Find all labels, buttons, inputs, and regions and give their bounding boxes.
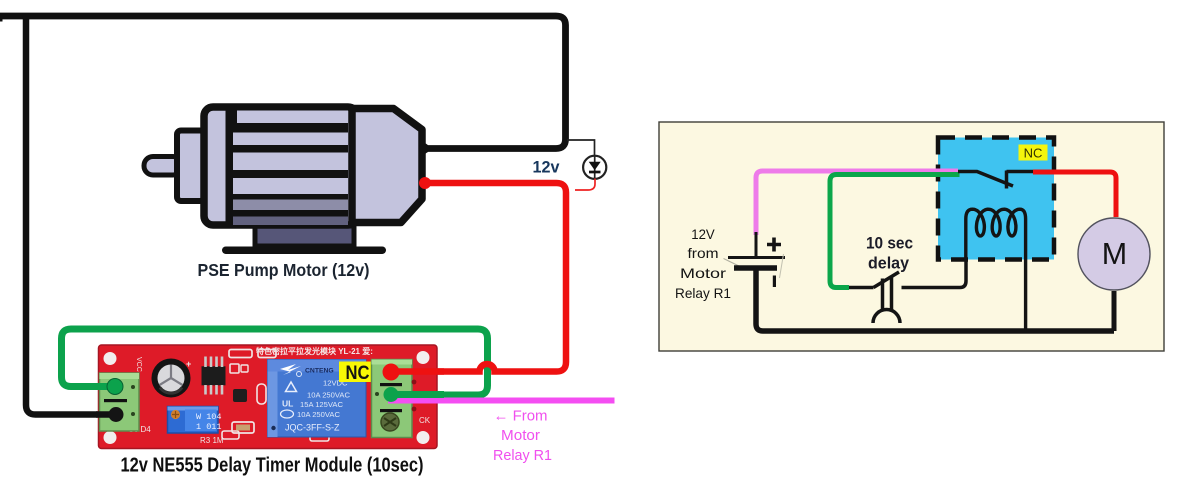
left terminal small pin dots bbox=[131, 385, 135, 389]
PCB component: blue relay body bbox=[268, 360, 367, 438]
svg-text:Relay R1: Relay R1 bbox=[675, 285, 731, 301]
relay K1: NC contact bar bbox=[1005, 171, 1009, 189]
svg-text:1 011: 1 011 bbox=[196, 422, 222, 432]
wire: green loop from module left terminal around to module right terminal bbox=[62, 329, 488, 395]
relay label: CQC 10A 250VAC bbox=[281, 410, 294, 418]
svg-text:12v: 12v bbox=[533, 159, 561, 177]
motor M1: stripe 3 light bbox=[233, 153, 348, 171]
relay label: ZL logo bbox=[280, 364, 301, 375]
svg-text:W 104: W 104 bbox=[196, 412, 222, 422]
motor M1: stripe zone background bbox=[233, 110, 348, 225]
svg-text:特色密拉平拉发光模块 YL-21 爱:: 特色密拉平拉发光模块 YL-21 爱: bbox=[256, 346, 373, 356]
svg-text:CK: CK bbox=[419, 416, 431, 425]
PCB silkscreen: vertical capsule bbox=[257, 384, 266, 404]
svg-text:NC: NC bbox=[346, 363, 370, 384]
switch SW1: actuator double bars bbox=[883, 277, 892, 312]
PCB silkscreen: small box bbox=[258, 350, 276, 358]
svg-text:PSE Pump Motor (12v): PSE Pump Motor (12v) bbox=[198, 260, 370, 280]
svg-text:VCC: VCC bbox=[135, 357, 142, 372]
battery B1: long plate bbox=[728, 256, 785, 259]
svg-text:R3 1M: R3 1M bbox=[200, 436, 224, 445]
diode branch thin red wire bbox=[575, 179, 595, 191]
PCB silkscreen: resistor outline pair top bbox=[229, 350, 252, 358]
battery B1: top lead bbox=[755, 232, 758, 256]
module yellow NC label bbox=[339, 362, 377, 383]
junction: left terminal green wire dot bbox=[107, 379, 123, 395]
diode D1 triangle bbox=[594, 156, 596, 179]
wire: pink wire from module right terminal going right bbox=[388, 398, 615, 404]
motor M1: stripe 6 dark gray bbox=[233, 217, 348, 226]
svg-text:JQC-3FF-S-Z: JQC-3FF-S-Z bbox=[285, 423, 340, 433]
NE555 module PCB board bbox=[99, 345, 438, 449]
wire: bottom black wire from battery to motor bbox=[756, 270, 1114, 331]
wire: top black wire from left edge to motor black terminal bbox=[0, 16, 566, 149]
PCB component: trimmer screw bbox=[171, 410, 180, 419]
switch SW1: right lead to coil bbox=[902, 260, 967, 288]
diode D1 cathode bar bbox=[589, 171, 601, 174]
motor M1: base bar bbox=[222, 247, 386, 255]
PCB component: blue trimmer potentiometer bbox=[168, 407, 219, 434]
relay: bottom-left pin dot bbox=[271, 426, 275, 430]
PCB corner hole bottom-right bbox=[417, 431, 430, 444]
PCB component: capacitor silver top bbox=[158, 365, 185, 392]
motor M2: bottom lead bbox=[1112, 291, 1117, 331]
switch SW1: left lead bbox=[849, 286, 874, 290]
svg-text:10 sec: 10 sec bbox=[866, 233, 913, 252]
svg-text:Motor: Motor bbox=[501, 427, 540, 444]
svg-text:+: + bbox=[186, 359, 191, 369]
svg-text:delay: delay bbox=[868, 254, 910, 273]
svg-text:15A 125VAC: 15A 125VAC bbox=[300, 400, 343, 409]
wire: green stub onto board bbox=[391, 391, 444, 398]
svg-text:CNTENG: CNTENG bbox=[305, 368, 334, 375]
PCB silkscreen: small boxes mid bbox=[230, 364, 239, 373]
right terminal screw bbox=[381, 413, 399, 431]
PCB component: SOIC-8 NE555 chip bbox=[202, 366, 226, 385]
svg-text:10A 250VAC: 10A 250VAC bbox=[307, 391, 350, 400]
PCB corner hole bottom-left bbox=[104, 431, 117, 444]
relay label: triangle mark bbox=[286, 382, 297, 392]
PCB small red holes right bbox=[412, 380, 417, 385]
svg-text:UL: UL bbox=[282, 399, 293, 409]
junction: motor red terminal bbox=[419, 177, 431, 189]
wire: green from switch to relay box bbox=[830, 175, 960, 288]
relay K1: NC contact link bbox=[1007, 170, 1034, 174]
motor M1: stripe 2 light bbox=[233, 133, 348, 146]
wire: pink stub onto board bbox=[388, 398, 444, 404]
motor M2: circle bbox=[1078, 218, 1150, 290]
motor M1: pedestal block bbox=[255, 226, 354, 246]
right terminal slot lines bbox=[380, 383, 402, 386]
motor M1: stripe 1 light bbox=[237, 111, 348, 124]
svg-text:M: M bbox=[1102, 237, 1127, 271]
junction: right terminal red wire dot bbox=[383, 364, 400, 381]
svg-text:12V: 12V bbox=[691, 226, 715, 242]
motor M1: shaft bbox=[144, 157, 182, 176]
svg-text:from: from bbox=[688, 245, 719, 261]
diode D1 circle bbox=[583, 156, 606, 179]
relay K1: contact common lead bbox=[958, 172, 1013, 187]
right terminal small pin dots bbox=[375, 392, 379, 396]
diode branch thin black wire bbox=[567, 140, 595, 156]
switch SW1: lever bbox=[874, 272, 900, 288]
wire: red from NC contact to motor bbox=[1033, 172, 1116, 217]
motor M1: end cap polygon bbox=[352, 109, 422, 223]
wire: red wire from motor red terminal to NC terminal with hop over green bbox=[391, 183, 566, 372]
switch SW1: actuator arc bbox=[873, 310, 900, 324]
battery B1: minus mark bbox=[773, 276, 776, 288]
left terminal slot line bbox=[104, 399, 127, 402]
junction: right terminal green wire dot bbox=[384, 387, 399, 402]
motor M1: left bearing block bbox=[177, 131, 204, 202]
motor M1: stripe 4 light bbox=[233, 178, 348, 194]
svg-text:NC: NC bbox=[1024, 146, 1043, 161]
battery B1: plus sign bbox=[767, 238, 781, 252]
schematic panel background bbox=[659, 122, 1164, 351]
battery B1: short plate bbox=[734, 265, 777, 271]
PCB corner hole top-left bbox=[104, 352, 117, 365]
module left green terminal block bbox=[100, 373, 140, 431]
wire: green stub onto board bbox=[96, 383, 116, 390]
motor M1: stripe 5 mid gray bbox=[233, 200, 348, 211]
motor M1: main body bbox=[204, 107, 357, 225]
battery B1: faint diagonal artifact bbox=[724, 259, 742, 268]
wire: black stub at left edge bbox=[0, 14, 3, 22]
wire: red stub onto board bbox=[391, 368, 444, 375]
PCB component: electrolytic capacitor body bbox=[152, 359, 191, 398]
svg-text:Relay R1: Relay R1 bbox=[493, 447, 552, 464]
wire: black stub onto board bbox=[96, 411, 117, 418]
relay K1: coil (loops) bbox=[966, 209, 1026, 331]
PCB silkscreen: bottom small marks bbox=[222, 431, 239, 439]
motor M1: inner vertical divider line bbox=[226, 107, 234, 225]
junction: left terminal black wire dot bbox=[109, 407, 124, 422]
svg-text:Motor: Motor bbox=[680, 265, 726, 281]
relay K1: NC yellow label bbox=[1019, 145, 1048, 161]
PCB component: transistor bbox=[233, 389, 247, 402]
PCB corner hole top-right bbox=[417, 351, 430, 364]
svg-text:← From: ← From bbox=[494, 408, 548, 425]
svg-text:12v NE555 Delay Timer Module (: 12v NE555 Delay Timer Module (10sec) bbox=[121, 455, 424, 477]
relay K1: cyan dashed box bbox=[938, 138, 1054, 260]
junction: motor black terminal bbox=[419, 143, 429, 153]
wire: pink from battery to relay box bbox=[756, 171, 958, 235]
module right green terminal block bbox=[372, 360, 413, 438]
wire: black wire from top wire down to module left terminal bbox=[26, 16, 116, 415]
svg-text:10A 250VAC: 10A 250VAC bbox=[297, 410, 340, 419]
